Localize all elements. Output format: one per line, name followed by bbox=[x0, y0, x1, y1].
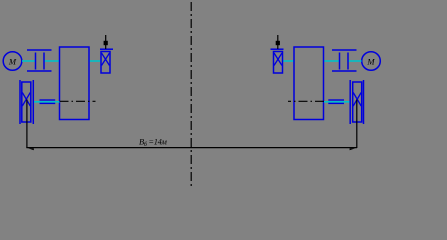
svg-text:M: M bbox=[8, 57, 17, 67]
bearing block with cross (left) bbox=[100, 49, 113, 73]
extension line from left drum center bbox=[26, 100, 28, 149]
wire: output shaft drum to gearbox (left, cyan) bbox=[34, 101, 60, 103]
conveyor centerline (vertical dash-dot) bbox=[190, 2, 192, 186]
wire: input shaft gearbox to bearing (right, cyan) bbox=[283, 60, 295, 62]
wire: input shaft motor to coupling (right, cyan) bbox=[349, 60, 362, 62]
drive drum / pulley (left) bbox=[20, 80, 33, 124]
wire: input shaft gearbox to bearing (left, cyan) bbox=[89, 60, 101, 62]
output axis centerline (right, dash-dot) bbox=[288, 100, 324, 102]
gearbox (left) bbox=[60, 47, 90, 120]
bearing block with cross (right) bbox=[271, 49, 284, 73]
wire: output shaft drum to gearbox (right, cyan) bbox=[324, 101, 350, 103]
motor M (left) bbox=[3, 52, 22, 71]
gearbox (right) bbox=[294, 47, 324, 120]
dimension line B = 14 m bbox=[26, 138, 357, 151]
output shaft double line (left) bbox=[40, 100, 56, 103]
coupling (left) bbox=[27, 50, 52, 71]
svg-text:Вб =14м: Вб =14м bbox=[139, 138, 167, 149]
wire: input shaft motor to coupling (left, cyan) bbox=[22, 60, 35, 62]
wire: input shaft coupling to gearbox (right, cyan) bbox=[324, 60, 339, 62]
wire: input shaft coupling to gearbox (left, cyan) bbox=[45, 60, 60, 62]
output shaft double line (right) bbox=[328, 100, 344, 103]
output axis centerline (left, dash-dot) bbox=[60, 100, 96, 102]
drive drum / pulley (right) bbox=[350, 80, 363, 124]
load arrow (left) bbox=[104, 35, 108, 49]
svg-text:M: M bbox=[366, 57, 375, 67]
coupling (right) bbox=[332, 50, 357, 71]
motor M (right) bbox=[362, 52, 381, 71]
extension line from right drum center bbox=[356, 100, 358, 149]
load arrow (right) bbox=[276, 35, 280, 49]
